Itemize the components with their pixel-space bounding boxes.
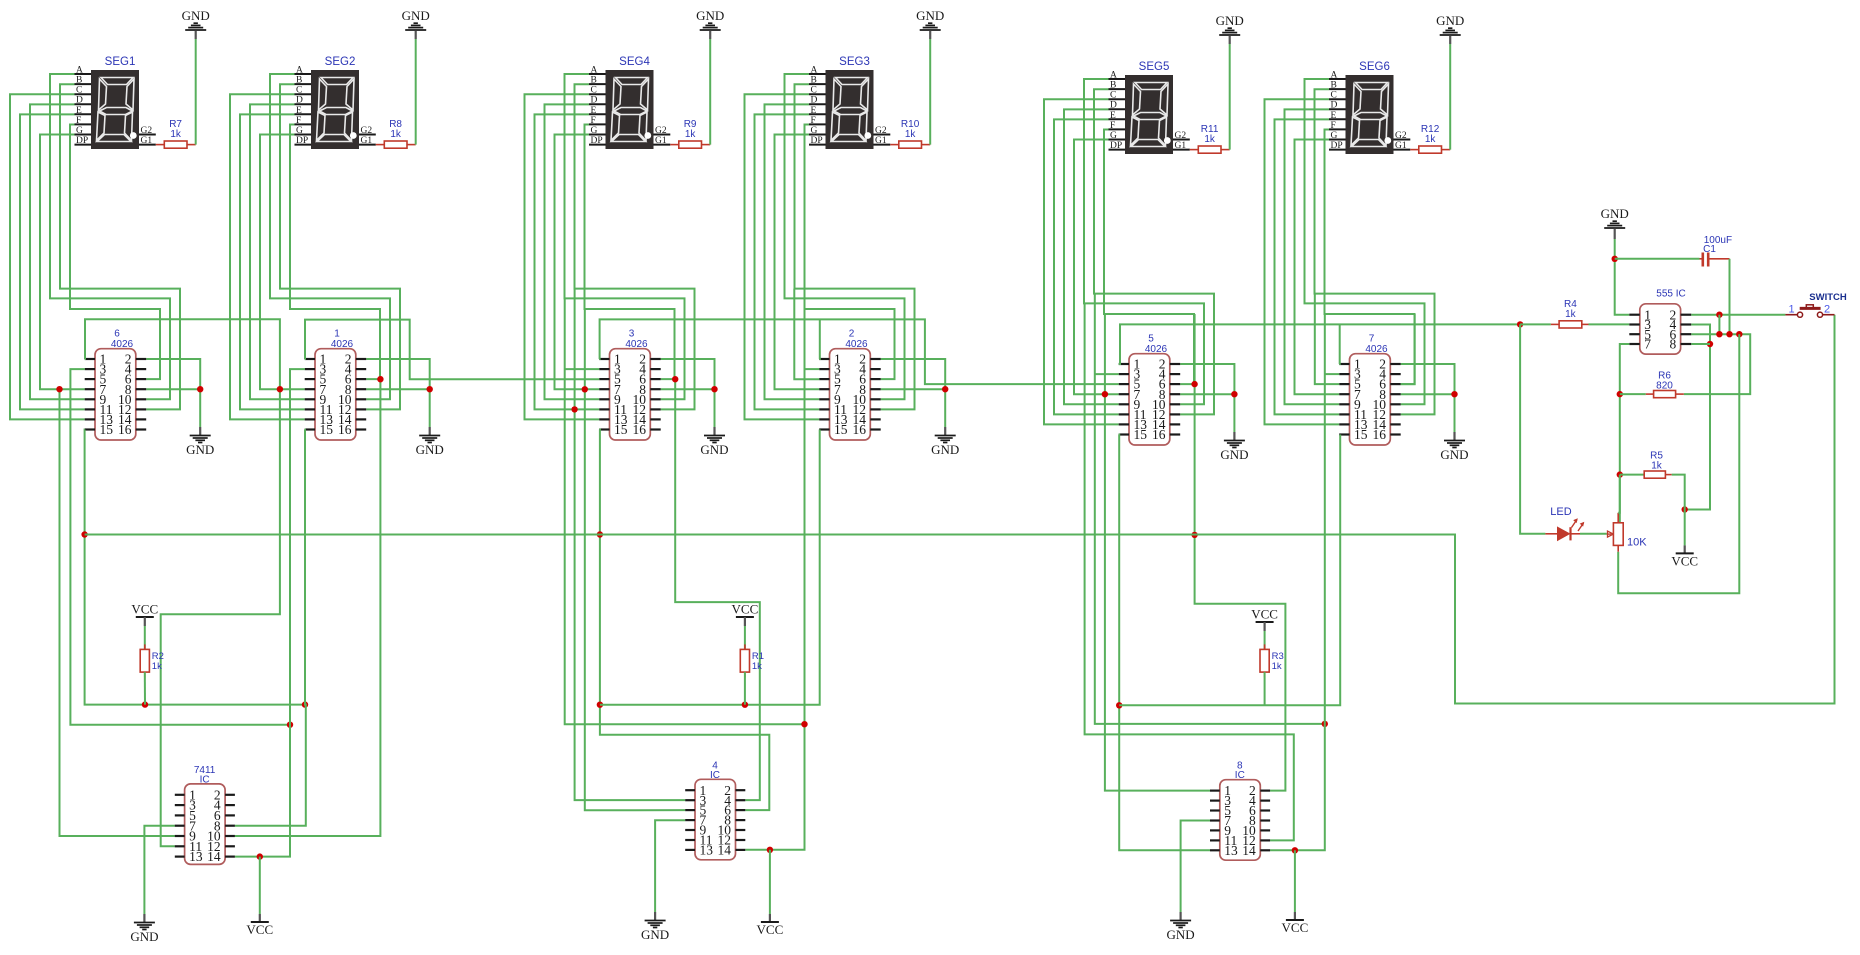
svg-text:B: B (76, 76, 82, 86)
svg-text:B: B (591, 76, 597, 86)
svg-text:GND: GND (1216, 13, 1244, 28)
svg-text:VCC: VCC (757, 922, 784, 937)
svg-text:16: 16 (118, 422, 132, 437)
svg-text:G1: G1 (875, 136, 887, 146)
svg-text:E: E (1331, 111, 1337, 121)
svg-text:14: 14 (1242, 843, 1256, 858)
svg-text:5: 5 (1148, 334, 1154, 345)
svg-text:SEG1: SEG1 (105, 56, 136, 68)
svg-text:GND: GND (402, 8, 430, 23)
svg-text:IC: IC (710, 770, 720, 781)
svg-text:F: F (1110, 121, 1115, 131)
svg-text:DP: DP (811, 136, 823, 146)
svg-text:4026: 4026 (111, 339, 134, 350)
svg-text:G2: G2 (1395, 131, 1407, 141)
svg-text:LED: LED (1550, 506, 1571, 518)
svg-text:1k: 1k (1425, 134, 1437, 145)
svg-text:B: B (296, 76, 302, 86)
svg-text:GND: GND (1440, 447, 1468, 462)
svg-text:1k: 1k (685, 129, 697, 140)
svg-text:G2: G2 (655, 126, 667, 136)
svg-text:VCC: VCC (246, 922, 273, 937)
svg-text:DP: DP (296, 136, 308, 146)
svg-text:G: G (811, 126, 818, 136)
svg-text:GND: GND (182, 8, 210, 23)
svg-text:E: E (811, 106, 817, 116)
svg-text:555 IC: 555 IC (1656, 289, 1685, 300)
svg-text:GND: GND (931, 442, 959, 457)
svg-text:16: 16 (633, 422, 647, 437)
svg-text:B: B (811, 76, 817, 86)
svg-text:GND: GND (1601, 206, 1629, 221)
svg-text:G: G (1331, 131, 1338, 141)
svg-text:15: 15 (100, 422, 114, 437)
svg-text:1k: 1k (1272, 661, 1282, 672)
svg-text:GND: GND (186, 442, 214, 457)
svg-text:DP: DP (1110, 141, 1122, 151)
svg-text:GND: GND (1436, 13, 1464, 28)
svg-text:1k: 1k (905, 129, 917, 140)
svg-text:D: D (591, 96, 598, 106)
svg-text:G: G (1110, 131, 1117, 141)
svg-text:2: 2 (1824, 304, 1830, 316)
svg-text:A: A (811, 66, 818, 76)
svg-text:E: E (296, 106, 302, 116)
svg-text:GND: GND (641, 927, 669, 942)
svg-text:E: E (1110, 111, 1116, 121)
svg-text:E: E (591, 106, 597, 116)
svg-text:2: 2 (849, 329, 855, 340)
svg-text:G: G (296, 126, 303, 136)
svg-text:VCC: VCC (131, 602, 158, 617)
svg-text:C: C (76, 86, 82, 96)
svg-text:16: 16 (1373, 427, 1387, 442)
svg-text:IC: IC (200, 774, 210, 785)
svg-text:13: 13 (189, 849, 203, 864)
svg-text:15: 15 (1134, 427, 1148, 442)
svg-text:4026: 4026 (1365, 344, 1388, 355)
svg-text:A: A (76, 66, 83, 76)
svg-text:A: A (1110, 71, 1117, 81)
svg-text:G1: G1 (655, 136, 667, 146)
svg-text:D: D (296, 96, 303, 106)
svg-text:D: D (1110, 101, 1117, 111)
svg-text:F: F (591, 116, 596, 126)
svg-text:820: 820 (1656, 381, 1673, 392)
svg-text:DP: DP (1331, 141, 1343, 151)
svg-text:DP: DP (76, 136, 88, 146)
svg-text:SEG4: SEG4 (619, 56, 650, 68)
svg-text:1k: 1k (170, 129, 182, 140)
svg-text:16: 16 (853, 422, 867, 437)
svg-text:A: A (1331, 71, 1338, 81)
svg-text:D: D (811, 96, 818, 106)
svg-text:F: F (1331, 121, 1336, 131)
svg-text:1k: 1k (390, 129, 402, 140)
svg-text:4026: 4026 (331, 339, 354, 350)
svg-text:10K: 10K (1627, 537, 1647, 549)
svg-text:16: 16 (338, 422, 352, 437)
svg-text:D: D (1331, 101, 1338, 111)
svg-text:C1: C1 (1703, 244, 1716, 255)
svg-text:GND: GND (1220, 447, 1248, 462)
svg-text:C: C (591, 86, 597, 96)
svg-text:A: A (591, 66, 598, 76)
svg-text:B: B (1110, 81, 1116, 91)
svg-text:G1: G1 (141, 136, 153, 146)
svg-text:G1: G1 (1395, 141, 1407, 151)
svg-text:VCC: VCC (732, 602, 759, 617)
svg-text:SWITCH: SWITCH (1809, 292, 1847, 303)
svg-text:GND: GND (696, 8, 724, 23)
svg-text:F: F (76, 116, 81, 126)
svg-text:7: 7 (1644, 337, 1651, 352)
svg-text:6: 6 (114, 329, 120, 340)
svg-text:DP: DP (591, 136, 603, 146)
svg-text:E: E (76, 106, 82, 116)
svg-text:8: 8 (1670, 337, 1677, 352)
svg-text:14: 14 (718, 843, 732, 858)
svg-text:GND: GND (700, 442, 728, 457)
svg-text:GND: GND (416, 442, 444, 457)
svg-text:G: G (76, 126, 83, 136)
svg-text:15: 15 (1354, 427, 1368, 442)
svg-text:7: 7 (1369, 334, 1375, 345)
svg-text:14: 14 (207, 849, 221, 864)
svg-text:GND: GND (916, 8, 944, 23)
svg-text:C: C (811, 86, 817, 96)
svg-text:C: C (296, 86, 302, 96)
svg-text:15: 15 (614, 422, 628, 437)
svg-text:1: 1 (1788, 304, 1794, 316)
svg-text:1k: 1k (1651, 461, 1663, 472)
svg-text:G1: G1 (1175, 141, 1187, 151)
svg-text:G2: G2 (875, 126, 887, 136)
svg-text:GND: GND (130, 929, 158, 944)
svg-text:G2: G2 (141, 126, 153, 136)
svg-text:SEG6: SEG6 (1359, 61, 1390, 73)
svg-text:1k: 1k (752, 661, 762, 672)
svg-text:B: B (1331, 81, 1337, 91)
svg-text:G2: G2 (361, 126, 373, 136)
svg-text:4026: 4026 (1145, 344, 1168, 355)
svg-text:C: C (1331, 91, 1337, 101)
svg-text:VCC: VCC (1671, 553, 1698, 568)
svg-text:SEG2: SEG2 (325, 56, 356, 68)
svg-text:VCC: VCC (1282, 920, 1309, 935)
svg-text:3: 3 (629, 329, 635, 340)
svg-text:1k: 1k (1565, 309, 1577, 320)
svg-text:13: 13 (700, 843, 714, 858)
svg-text:F: F (811, 116, 816, 126)
svg-text:13: 13 (1224, 843, 1238, 858)
svg-text:15: 15 (320, 422, 334, 437)
svg-text:1k: 1k (1204, 134, 1216, 145)
svg-text:SEG3: SEG3 (839, 56, 870, 68)
svg-text:15: 15 (834, 422, 848, 437)
svg-text:1k: 1k (152, 661, 162, 672)
svg-text:GND: GND (1167, 927, 1195, 942)
svg-text:4026: 4026 (845, 339, 868, 350)
svg-text:G: G (591, 126, 598, 136)
svg-text:1: 1 (334, 329, 340, 340)
svg-text:G2: G2 (1175, 131, 1187, 141)
svg-text:C: C (1110, 91, 1116, 101)
svg-text:F: F (296, 116, 301, 126)
svg-text:16: 16 (1152, 427, 1166, 442)
svg-text:VCC: VCC (1251, 607, 1278, 622)
svg-text:G1: G1 (361, 136, 373, 146)
svg-text:A: A (296, 66, 303, 76)
svg-text:4026: 4026 (625, 339, 648, 350)
svg-text:SEG5: SEG5 (1139, 61, 1170, 73)
svg-text:IC: IC (1235, 770, 1245, 781)
svg-text:D: D (76, 96, 83, 106)
